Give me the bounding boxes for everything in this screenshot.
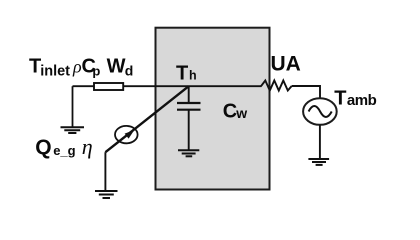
svg-text:UA: UA: [271, 53, 301, 76]
resistor R1 (inlet flow, box style): [94, 83, 123, 90]
current source Q circle: [115, 126, 138, 143]
voltage source Tamb circle: [303, 98, 337, 125]
wire main horizontal: [73, 85, 262, 87]
wire diagonal from source to node Th: [105, 86, 188, 152]
resistor UA zigzag: [261, 81, 292, 91]
tank body (thermal mass): [156, 28, 270, 190]
svg-text:Qe_gη: Qe_gη: [35, 134, 92, 159]
node Th stem wire: [188, 86, 190, 103]
wire source drop: [104, 152, 106, 191]
ground under capacitor: [178, 150, 199, 156]
ground right: [308, 159, 329, 165]
svg-text:Tamb: Tamb: [334, 87, 376, 109]
current source arrowhead: [125, 130, 135, 139]
wire source to ground right: [319, 125, 321, 159]
capacitor Cw: [177, 103, 201, 110]
ground left: [61, 127, 85, 133]
sine symbol inside source: [309, 106, 332, 117]
svg-text:TinletρCpWd: TinletρCpWd: [29, 56, 133, 80]
wire zigzag to corner: [292, 86, 320, 99]
wire left drop: [72, 86, 74, 127]
wire capacitor to ground: [188, 110, 190, 151]
ground under source: [95, 191, 118, 198]
